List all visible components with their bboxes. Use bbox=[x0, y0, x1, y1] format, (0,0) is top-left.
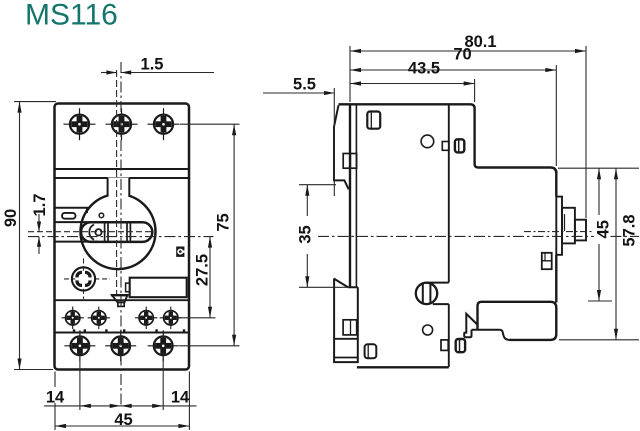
knob notch tab bbox=[108, 178, 130, 197]
dimension 45 side label bbox=[594, 215, 613, 244]
auxiliary block rectangle bbox=[126, 278, 187, 298]
dimension 45 extension bottom bbox=[588, 300, 612, 302]
front view upper band line bbox=[55, 168, 189, 170]
DIN clip upper arm bbox=[334, 105, 349, 189]
dimension 57.8 line bbox=[614, 168, 618, 340]
extension line body back face bbox=[349, 46, 351, 102]
side view bottom edge bbox=[357, 366, 449, 368]
dimension 35 extension top bbox=[299, 184, 336, 186]
aux screw S1 bbox=[62, 307, 85, 329]
dimension 27.5 extension bottom bbox=[178, 317, 216, 319]
bottom terminal screw B2 bbox=[105, 330, 136, 361]
top section square detail bbox=[442, 142, 449, 151]
clip release screw bbox=[416, 283, 437, 304]
extension line knob tip bbox=[585, 46, 587, 218]
dimension 70 label bbox=[453, 46, 471, 64]
dimension 1.7 arrows bbox=[37, 214, 41, 254]
svg-text:14: 14 bbox=[171, 389, 190, 407]
rotary knob disc bbox=[81, 194, 156, 269]
dimension 90 extension bottom bbox=[14, 369, 53, 371]
svg-text:14: 14 bbox=[46, 389, 65, 407]
DIN clip lower hook bbox=[334, 279, 358, 363]
dimension 57.8 extension bottom bbox=[559, 339, 639, 341]
knob small hole B bbox=[95, 229, 101, 235]
logo box bbox=[176, 247, 184, 257]
dimension 27.5 label bbox=[194, 254, 212, 286]
svg-text:MS116: MS116 bbox=[25, 0, 118, 32]
front face upper segment bbox=[555, 171, 557, 197]
extension line clip face bbox=[333, 88, 335, 196]
dimension 90 label bbox=[2, 209, 20, 227]
dimension 90 extension top bbox=[14, 101, 56, 103]
handle horizontal centerline bbox=[28, 231, 152, 233]
aux screw S3 bbox=[135, 307, 157, 329]
front face lower segment bbox=[555, 255, 557, 303]
handle channel top line bbox=[55, 221, 98, 223]
body edge extension left bbox=[54, 372, 56, 431]
dimension 80.1 line bbox=[350, 49, 586, 53]
DIN clip upper clamp detail bbox=[343, 154, 356, 169]
device horizontal centerline bbox=[28, 236, 214, 238]
bottom rounded detail bbox=[456, 339, 465, 352]
svg-text:75: 75 bbox=[215, 213, 233, 231]
title MS116 bbox=[25, 0, 118, 32]
DIN clip lower clamp detail bbox=[343, 320, 357, 335]
left recess right edge bbox=[86, 208, 88, 213]
bottom terminal screw B3 bbox=[148, 330, 179, 361]
bottom square detail bbox=[441, 340, 448, 351]
dimension 35 extension bottom bbox=[299, 286, 349, 288]
terminal screw T2 (top middle) bbox=[106, 108, 138, 140]
front view lower band line bbox=[55, 177, 189, 179]
front view body outline bbox=[55, 104, 190, 370]
side device centerline bbox=[318, 235, 639, 237]
dimension 35 line bbox=[305, 185, 309, 288]
dimension 75 label bbox=[215, 213, 233, 231]
internal parting line vertical bbox=[448, 104, 450, 367]
bottom small circle detail bbox=[423, 325, 433, 335]
lower band line bbox=[55, 329, 189, 332]
terminal screw T3 (top right) bbox=[148, 108, 180, 140]
toggle handle stadium bbox=[81, 222, 152, 242]
left recess top edge bbox=[55, 207, 89, 209]
handle channel bottom line bbox=[55, 241, 98, 243]
dimension 1.5 line bbox=[101, 70, 214, 74]
dimension 1.7 label bbox=[31, 194, 49, 217]
bottom terminal screw B1 bbox=[64, 330, 95, 361]
clip release screw notch bbox=[428, 283, 449, 305]
dimension 57.8 label bbox=[621, 214, 639, 246]
dimension 5.5 line bbox=[263, 91, 334, 95]
top section rounded detail bbox=[455, 139, 464, 152]
dimension 70 line bbox=[350, 68, 556, 72]
device vertical centerline bbox=[120, 62, 122, 406]
knob tip side bbox=[565, 214, 587, 240]
svg-text:45: 45 bbox=[114, 411, 132, 429]
knob small hole A bbox=[99, 213, 104, 218]
aux screw S2 bbox=[88, 307, 110, 329]
side view top and right outline bbox=[339, 104, 557, 173]
dimension 27.5 line bbox=[208, 237, 212, 318]
svg-text:70: 70 bbox=[453, 46, 471, 64]
svg-text:57.8: 57.8 bbox=[621, 214, 639, 246]
dimension 14 line bbox=[44, 404, 197, 408]
svg-text:45: 45 bbox=[595, 220, 613, 238]
dimension 43.5 label bbox=[408, 60, 440, 78]
bottom screw extension line left bbox=[79, 358, 81, 411]
dimension 90 line bbox=[17, 102, 21, 370]
knob base nub side bbox=[556, 197, 562, 255]
dimension 45 57.8 shared extension top bbox=[558, 167, 639, 169]
dimension 45 label bbox=[114, 411, 132, 429]
bottom screw extension line right bbox=[162, 358, 164, 411]
knob centerline bbox=[524, 231, 602, 233]
svg-text:1.5: 1.5 bbox=[141, 56, 164, 74]
front face detail slot bbox=[542, 253, 552, 269]
svg-text:5.5: 5.5 bbox=[293, 76, 316, 94]
dimension 45 side line bbox=[597, 168, 601, 301]
svg-text:27.5: 27.5 bbox=[194, 254, 212, 286]
side view back face bbox=[349, 104, 351, 287]
aux screw S4 bbox=[160, 307, 182, 329]
knob flange side bbox=[562, 208, 575, 244]
svg-text:43.5: 43.5 bbox=[408, 60, 440, 78]
svg-text:1.7: 1.7 bbox=[31, 194, 49, 217]
handle vertical extension line bbox=[116, 70, 118, 295]
dimension 14 label left bbox=[45, 387, 65, 407]
bottom foot outline bbox=[472, 302, 557, 340]
body edge extension right bbox=[188, 372, 190, 431]
top section circle detail bbox=[421, 135, 434, 148]
dimension 45 line bbox=[55, 424, 189, 428]
mid horizontal line bbox=[55, 299, 189, 301]
dimension 80.1 label bbox=[464, 33, 496, 51]
side view inner parting line left bbox=[355, 104, 357, 288]
dimension 43.5 line bbox=[350, 81, 475, 85]
funnel tab bbox=[111, 295, 129, 306]
test button torx screw bbox=[64, 259, 110, 300]
dimension 75 extension bottom bbox=[179, 345, 240, 347]
svg-text:35: 35 bbox=[297, 225, 315, 243]
top terminal clamp side bbox=[367, 112, 380, 129]
dimension 5.5 label bbox=[293, 76, 316, 94]
dimension 75 line bbox=[232, 124, 236, 346]
dimension 35 label bbox=[297, 216, 315, 254]
dimension 14 label right bbox=[171, 389, 190, 407]
dimension 75 extension top bbox=[180, 123, 240, 125]
dimension 1.5 label bbox=[141, 56, 164, 74]
extension line top section edge bbox=[474, 79, 476, 102]
left recess window bbox=[62, 213, 76, 219]
extension line front face bbox=[555, 65, 557, 166]
terminal screw T1 (top left) bbox=[64, 108, 96, 140]
snap hook bbox=[464, 314, 477, 338]
svg-text:90: 90 bbox=[2, 209, 20, 227]
bottom terminal clamp side bbox=[365, 344, 377, 358]
